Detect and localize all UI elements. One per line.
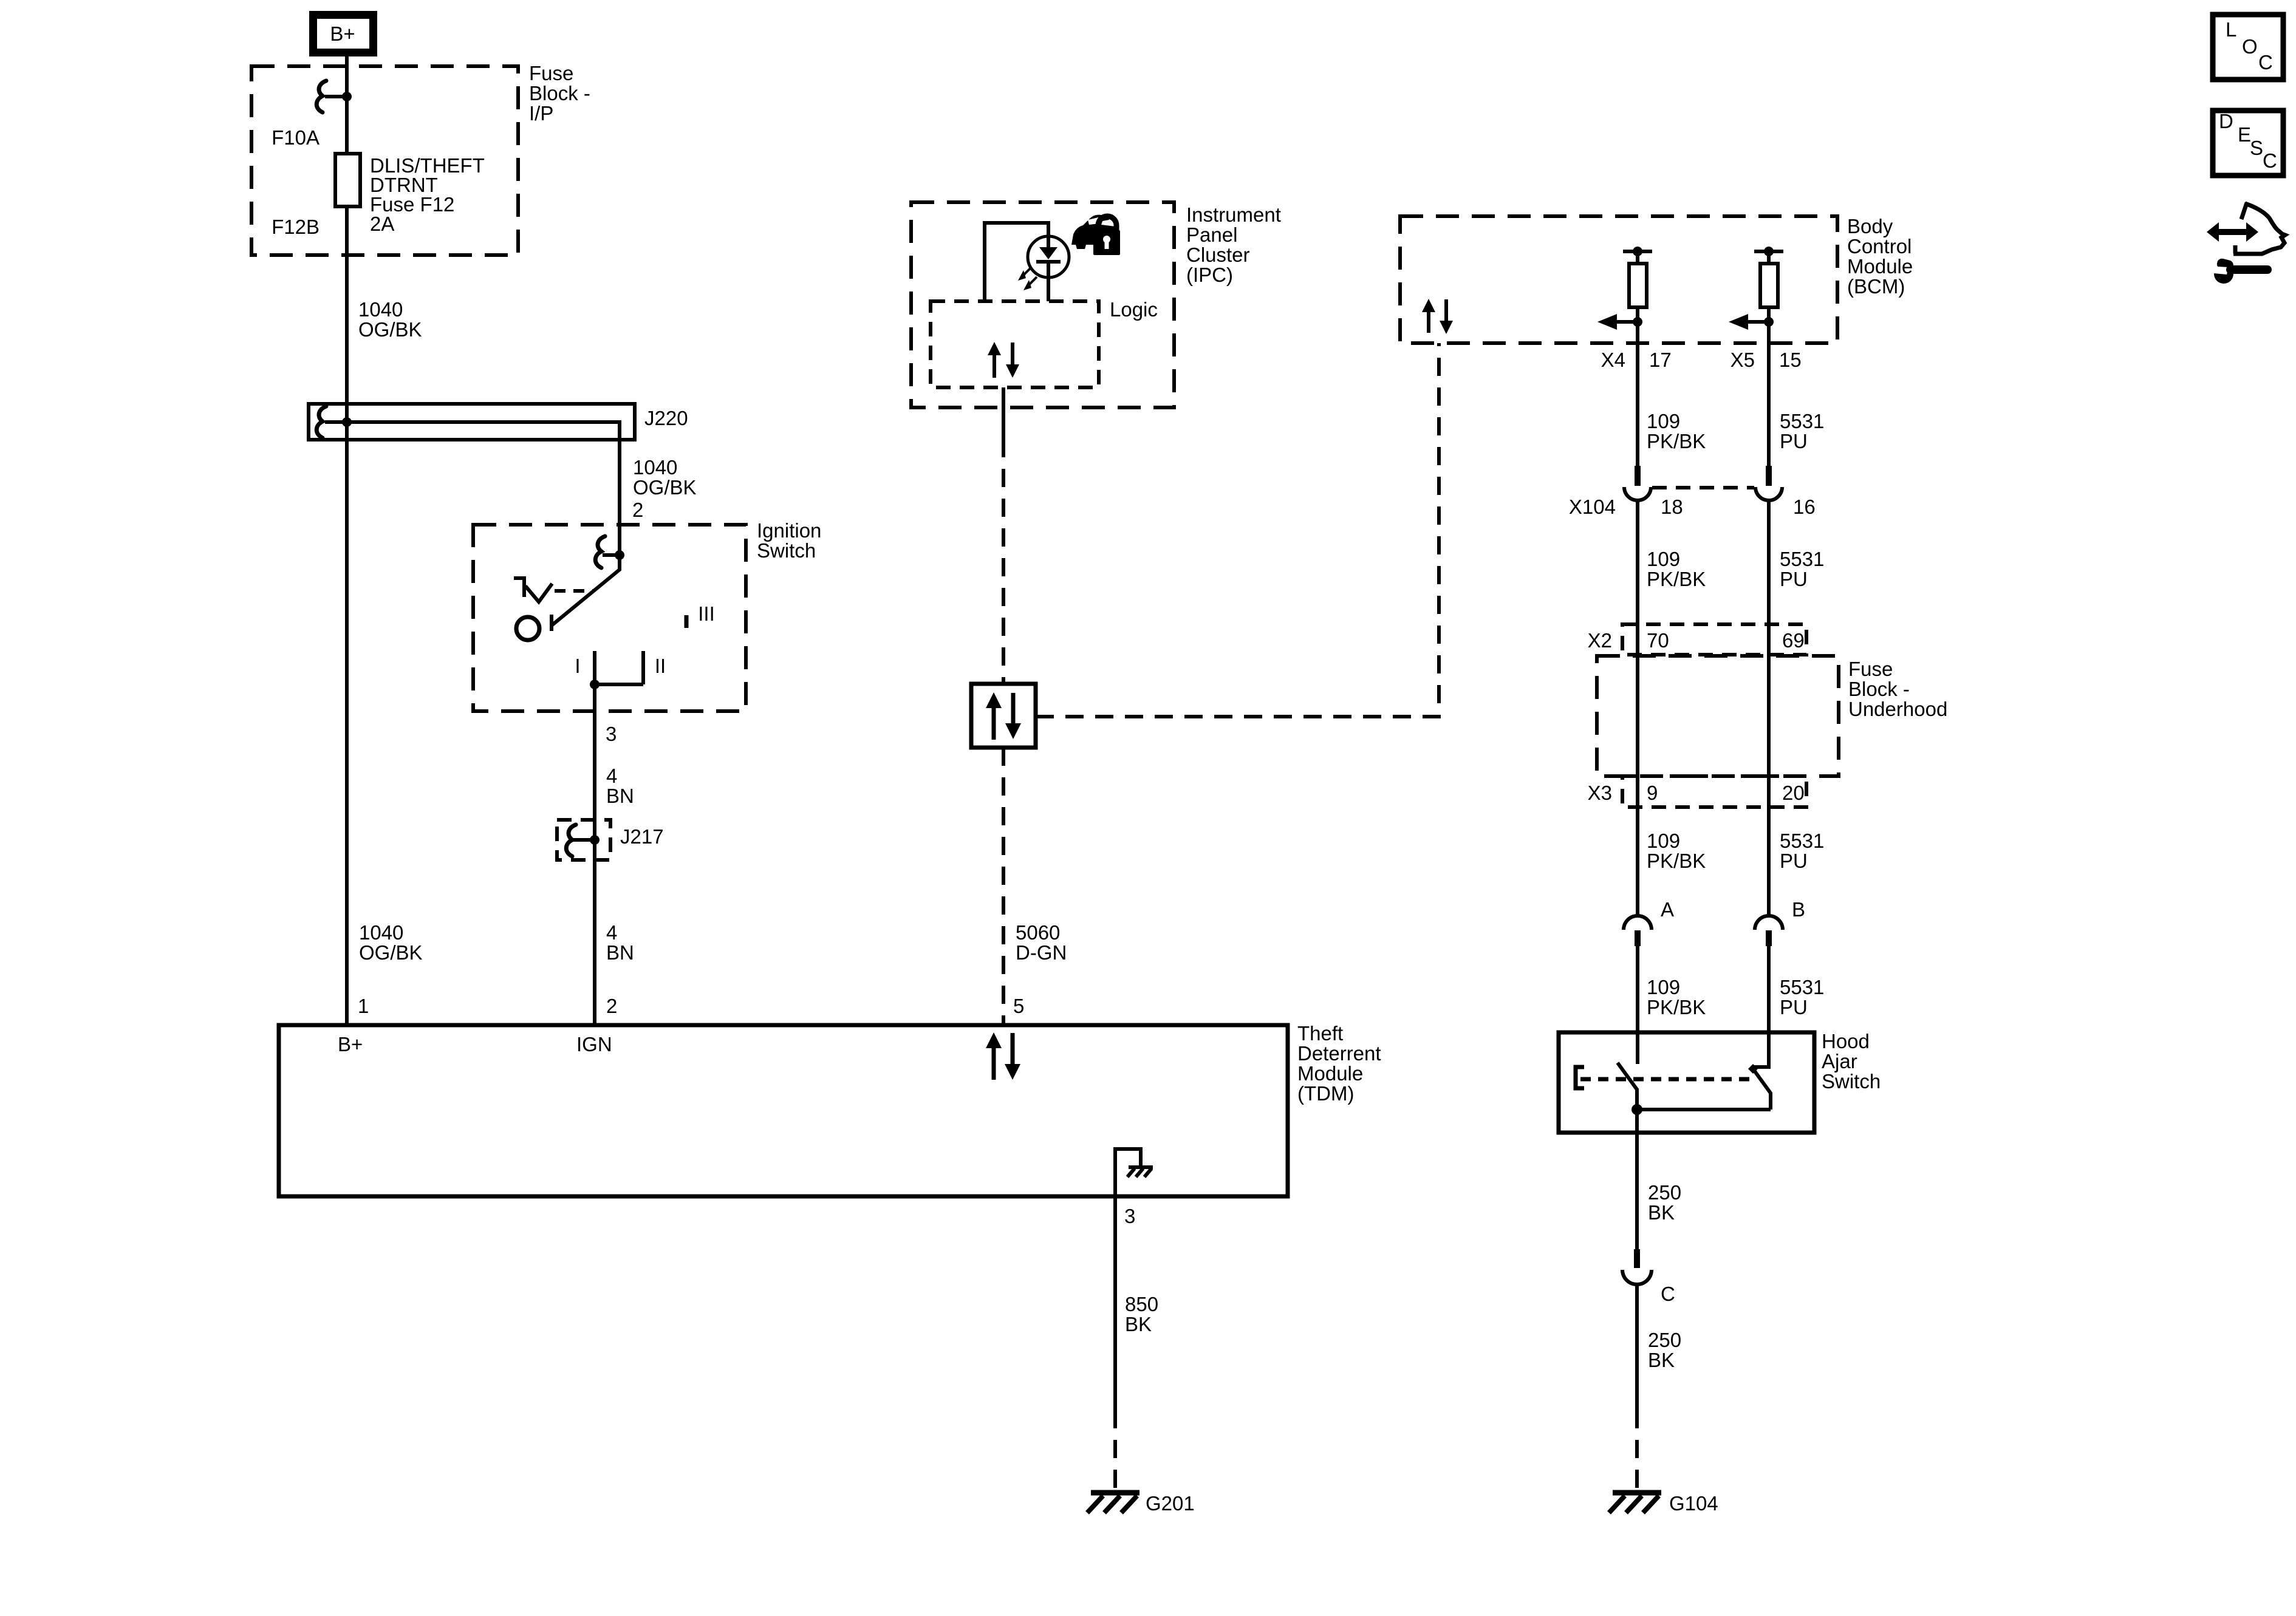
svg-text:850: 850 [1125, 1293, 1158, 1315]
svg-text:70: 70 [1647, 629, 1669, 652]
svg-text:20: 20 [1782, 782, 1805, 804]
svg-text:1040: 1040 [359, 921, 403, 944]
svg-text:O: O [2242, 35, 2258, 58]
connector row X2 [1622, 624, 1806, 655]
wire 4 BN ignition to TDM pin2 [593, 684, 596, 1025]
svg-text:G104: G104 [1669, 1492, 1718, 1515]
wire 109 PK/BK to hood ajar switch [1636, 946, 1639, 1032]
LOC legend box [2213, 15, 2283, 80]
hood ajar switch common [1637, 1108, 1771, 1111]
hood ajar switch pole B [1753, 1032, 1769, 1067]
LED light arrows [1023, 267, 1031, 276]
svg-text:Body: Body [1847, 215, 1893, 237]
svg-text:Hood: Hood [1822, 1030, 1870, 1052]
svg-text:L: L [2226, 18, 2236, 41]
TDM serial data arrows [986, 1032, 1002, 1048]
svg-text:18: 18 [1661, 496, 1683, 518]
svg-text:109: 109 [1647, 410, 1680, 432]
TDM internal ground wire [1115, 1149, 1141, 1196]
svg-text:G201: G201 [1146, 1492, 1195, 1515]
svg-text:(TDM): (TDM) [1297, 1082, 1354, 1105]
DESC legend box [2213, 111, 2283, 176]
instrument panel cluster IPC box [911, 202, 1174, 407]
svg-text:PK/BK: PK/BK [1647, 850, 1706, 872]
svg-text:5: 5 [1013, 995, 1024, 1017]
svg-text:Underhood: Underhood [1848, 698, 1947, 720]
node ignition pin 2 [618, 525, 621, 555]
position mark III [685, 615, 689, 628]
hood ajar switch mechanical link [1580, 1077, 1752, 1082]
connector C [1634, 1249, 1640, 1268]
svg-text:II: II [655, 655, 666, 677]
svg-text:J220: J220 [644, 407, 688, 429]
ignition key symbol [514, 578, 552, 602]
svg-text:Panel: Panel [1186, 223, 1237, 246]
splice J217 [557, 820, 610, 860]
svg-text:B+: B+ [338, 1033, 363, 1055]
svg-text:OG/BK: OG/BK [359, 941, 423, 964]
svg-text:BK: BK [1648, 1349, 1675, 1371]
svg-text:1040: 1040 [633, 456, 677, 479]
svg-text:F10A: F10A [272, 126, 319, 149]
wire 109 PK/BK X104 to underhood [1636, 500, 1639, 915]
svg-text:250: 250 [1648, 1181, 1681, 1204]
svg-text:109: 109 [1647, 548, 1680, 570]
svg-text:PU: PU [1780, 850, 1808, 872]
svg-text:Block -: Block - [529, 82, 590, 104]
svg-text:BK: BK [1648, 1201, 1675, 1224]
svg-text:A: A [1661, 898, 1674, 921]
connector X104 link [1652, 486, 1754, 489]
BCM serial data arrows [1422, 299, 1435, 312]
svg-text:5060: 5060 [1016, 921, 1060, 944]
svg-text:S: S [2250, 137, 2263, 159]
svg-text:Control: Control [1847, 235, 1912, 257]
svg-text:Instrument: Instrument [1186, 203, 1281, 226]
security indicator LED [1028, 236, 1069, 278]
svg-text:3: 3 [1124, 1205, 1135, 1227]
svg-text:Block -: Block - [1848, 678, 1910, 700]
fuse block I/P box [251, 66, 518, 255]
body repair icon fender outline [2241, 203, 2247, 219]
svg-text:PK/BK: PK/BK [1647, 996, 1706, 1018]
svg-text:PK/BK: PK/BK [1647, 568, 1706, 590]
svg-text:5531: 5531 [1780, 410, 1824, 432]
svg-text:B: B [1792, 898, 1805, 921]
svg-text:3: 3 [606, 723, 617, 745]
svg-text:Ignition: Ignition [757, 519, 821, 542]
wire 250 BK to connector C [1635, 1110, 1639, 1249]
BCM pullup resistor X5-15 [1754, 250, 1783, 253]
terminal hook pin 2 [595, 536, 605, 568]
ground G201 [1087, 1493, 1139, 1513]
ground G104 [1609, 1493, 1661, 1513]
position contact I [593, 651, 596, 684]
svg-text:PU: PU [1780, 430, 1808, 452]
security indicator LED wiring loop [985, 223, 1048, 301]
vehicle security icon padlock [1098, 216, 1116, 231]
wire 5531 PU to hood ajar switch [1767, 946, 1771, 1032]
svg-text:4: 4 [606, 921, 617, 944]
svg-text:PU: PU [1780, 996, 1808, 1018]
svg-text:C: C [2258, 51, 2273, 73]
svg-text:5531: 5531 [1780, 548, 1824, 570]
svg-text:III: III [698, 602, 715, 625]
svg-text:X5: X5 [1731, 349, 1755, 371]
svg-text:J217: J217 [620, 825, 664, 848]
svg-text:16: 16 [1793, 496, 1816, 518]
svg-text:D: D [2219, 110, 2233, 132]
ignition switch movable arm [552, 555, 620, 626]
theft deterrent module TDM box [279, 1025, 1288, 1196]
wire 850 BK TDM pin3 to G201 [1113, 1196, 1117, 1410]
svg-text:C: C [1661, 1283, 1675, 1305]
connector X104 pin 18 [1635, 466, 1641, 486]
svg-text:X2: X2 [1588, 629, 1612, 652]
svg-text:(IPC): (IPC) [1186, 264, 1233, 286]
hood ajar switch pole A [1636, 1032, 1639, 1064]
wire 250 BK to G104 [1635, 1284, 1639, 1410]
hood ajar switch box [1559, 1032, 1814, 1133]
svg-text:Module: Module [1847, 255, 1913, 278]
key mechanical link [555, 589, 593, 593]
BCM pullup resistor X4-17 [1623, 250, 1652, 253]
svg-text:OG/BK: OG/BK [633, 476, 697, 499]
wire serial data to TDM pin5 [1002, 748, 1005, 1025]
svg-text:X104: X104 [1569, 496, 1616, 518]
svg-text:X3: X3 [1588, 782, 1612, 804]
svg-text:Fuse: Fuse [529, 62, 573, 84]
hood ajar switch actuator bracket [1576, 1067, 1584, 1088]
svg-text:Switch: Switch [1822, 1070, 1881, 1093]
B+ battery terminal [313, 15, 374, 53]
svg-text:17: 17 [1649, 349, 1672, 371]
logic serial data arrows [988, 342, 1001, 355]
svg-text:4: 4 [606, 765, 617, 787]
IPC logic box [931, 301, 1099, 387]
svg-text:2A: 2A [370, 213, 394, 235]
wire B+ to fuse F12 [345, 56, 349, 154]
svg-text:BN: BN [606, 785, 634, 807]
svg-text:IGN: IGN [576, 1033, 612, 1055]
svg-text:2: 2 [632, 499, 643, 521]
terminal hook F10A [316, 81, 326, 112]
wire serial data link to BCM [1036, 343, 1439, 717]
svg-text:Deterrent: Deterrent [1297, 1042, 1381, 1065]
connector B [1755, 916, 1783, 930]
position contact II [595, 651, 643, 684]
svg-text:C: C [2263, 149, 2277, 172]
connector A [1624, 916, 1652, 930]
svg-text:Logic: Logic [1110, 298, 1158, 321]
svg-text:BK: BK [1125, 1313, 1152, 1335]
svg-text:OG/BK: OG/BK [358, 318, 422, 341]
svg-text:1: 1 [358, 995, 369, 1017]
svg-text:5531: 5531 [1780, 830, 1824, 852]
svg-text:15: 15 [1779, 349, 1802, 371]
wire J220 branch to ignition switch [347, 422, 620, 525]
svg-text:9: 9 [1647, 782, 1658, 804]
svg-text:F12B: F12B [272, 216, 319, 238]
ignition switch contact [516, 617, 539, 640]
svg-text:Cluster: Cluster [1186, 244, 1250, 266]
svg-text:B+: B+ [330, 22, 355, 45]
svg-text:D-GN: D-GN [1016, 941, 1067, 964]
ignition switch box [473, 525, 746, 711]
svg-text:2: 2 [606, 995, 617, 1017]
svg-text:PU: PU [1780, 568, 1808, 590]
serial data interface box [971, 684, 1036, 748]
svg-text:X4: X4 [1601, 349, 1625, 371]
svg-text:(BCM): (BCM) [1847, 275, 1905, 298]
wrench icon [2214, 264, 2233, 284]
svg-text:E: E [2238, 123, 2251, 146]
splice J220 [309, 404, 635, 440]
body repair icon arrow [2217, 229, 2248, 235]
fuse F12 2A [335, 154, 360, 206]
svg-text:Theft: Theft [1297, 1022, 1343, 1045]
svg-text:1040: 1040 [358, 298, 403, 321]
svg-text:250: 250 [1648, 1329, 1681, 1351]
TDM internal chassis ground [1129, 1165, 1153, 1169]
svg-text:69: 69 [1782, 629, 1805, 652]
body control module BCM box [1400, 216, 1837, 343]
svg-text:BN: BN [606, 941, 634, 964]
wire 5060 D-GN IPC to TDM [1002, 387, 1005, 439]
svg-text:I/P: I/P [529, 102, 553, 124]
wire 1040 OG/BK fuse to TDM pin1 [345, 206, 349, 1025]
svg-text:Ajar: Ajar [1822, 1050, 1857, 1072]
fuse block underhood box [1597, 656, 1839, 776]
svg-text:Switch: Switch [757, 539, 816, 562]
svg-text:Fuse: Fuse [1848, 658, 1893, 680]
connector X104 pin 16 [1766, 466, 1772, 486]
wire 5531 PU X104 to underhood [1767, 500, 1771, 915]
svg-text:Module: Module [1297, 1062, 1363, 1085]
connector row X3 [1622, 776, 1806, 807]
node ignition pin 3 [590, 680, 600, 689]
svg-text:5531: 5531 [1780, 976, 1824, 998]
vehicle security icon car [1071, 215, 1118, 249]
node F10A junction [342, 92, 352, 101]
svg-text:109: 109 [1647, 976, 1680, 998]
svg-text:109: 109 [1647, 830, 1680, 852]
svg-text:I: I [575, 655, 580, 677]
svg-text:PK/BK: PK/BK [1647, 430, 1706, 452]
